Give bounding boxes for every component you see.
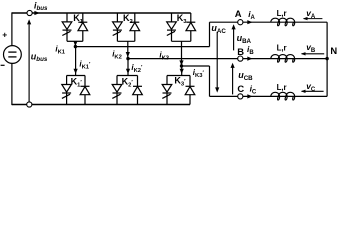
- inductor Lb (L,r): [271, 55, 295, 63]
- diode D4 of K1p (antiparallel): [80, 76, 90, 105]
- node: leg3 junction: [180, 64, 183, 67]
- wire+arrow i_K1p: phase A bus down to K1p: [75, 47, 77, 76]
- node: leg1 junction: [74, 45, 77, 48]
- wire: left vertical with DC source: [11, 12, 13, 45]
- wire: phase B line to right edge: [243, 58, 327, 60]
- arrow v_C: [302, 90, 324, 92]
- wire: phase C to terminal C: [210, 95, 238, 97]
- arrow v_B: [302, 53, 325, 55]
- svg-text:B: B: [237, 46, 244, 57]
- thyristor V1 of K1: [62, 13, 72, 41]
- arrow i_bus on top rail: [34, 11, 39, 15]
- arrow v_A (source voltage): [304, 18, 323, 20]
- thyristor V5 of K2p: [112, 76, 122, 105]
- wire: right vertical to node N: [326, 22, 328, 96]
- diode D3 of K3 (antiparallel): [186, 13, 196, 41]
- wire+arrow i_K2p: phase B down to K2p: [127, 59, 129, 76]
- terminal B: [238, 56, 243, 61]
- diode D2 of K2 (antiparallel): [130, 13, 140, 41]
- thyristor V4 of K1p: [62, 76, 72, 105]
- wire: phase A to terminal A: [210, 21, 238, 23]
- arrow i_B: [247, 57, 252, 61]
- wire: top DC bus rail: [12, 12, 27, 14]
- thyristor V3 of K3: [167, 13, 177, 41]
- thyristor V2 of K2: [113, 13, 123, 41]
- svg-text:C: C: [237, 83, 244, 94]
- terminal: top bus node (open circle): [27, 10, 32, 15]
- wire: K3p module top: [167, 75, 190, 77]
- wire+arrow i_K3p: phase C bus down to K3p: [181, 66, 183, 76]
- svg-text:L,r: L,r: [277, 43, 287, 52]
- arrow u_CB (phase C to B): [232, 67, 234, 94]
- wire: K1p module top: [67, 75, 85, 77]
- wire+arrow i_K3: K3 to phase C bus (crosses phase B): [181, 41, 183, 65]
- svg-text:A: A: [235, 8, 242, 19]
- wire: phase C vertical jog: [209, 66, 211, 96]
- wire: phase A line to right edge: [243, 21, 327, 23]
- wire: K2 module bottom: [117, 40, 134, 42]
- wire: K2p module top: [117, 75, 138, 77]
- diode D6 of K3p (antiparallel): [185, 76, 195, 105]
- arrow u_BA (phase B to A): [233, 29, 235, 51]
- label - of source: [1, 64, 5, 66]
- wire: phase C line to right edge: [243, 95, 327, 97]
- wire: K1 module bottom: [67, 40, 83, 42]
- terminal: bottom bus node (open circle): [27, 102, 32, 107]
- svg-text:L,r: L,r: [277, 83, 287, 92]
- voltage source U (DC): [4, 46, 22, 64]
- inductor La (L,r): [271, 18, 295, 26]
- terminal A: [238, 20, 243, 25]
- wire: phase A vertical jog: [209, 22, 211, 46]
- svg-text:+: +: [2, 30, 7, 40]
- svg-text:L,r: L,r: [277, 9, 287, 18]
- arrow i_A: [247, 20, 252, 24]
- diode D1 of K1 (antiparallel): [78, 13, 88, 41]
- node N junction dot: [325, 57, 328, 60]
- terminal C: [238, 94, 243, 99]
- inductor Lc (L,r): [271, 92, 295, 100]
- diode D5 of K2p (antiparallel): [133, 76, 143, 105]
- svg-text:N: N: [330, 45, 337, 56]
- wire: K3 module bottom: [172, 40, 191, 42]
- thyristor V6 of K3p: [162, 76, 172, 105]
- arrow u_bus (voltage across DC bus): [28, 24, 30, 101]
- arrow u_AC (phase A to C): [216, 32, 218, 88]
- arrow i_C: [247, 94, 252, 98]
- wire+arrow i_K1: K1 to phase A bus: [74, 41, 76, 46]
- wire: phase C bus from leg3 to jog: [182, 65, 210, 67]
- node: leg2 junction on phase B: [126, 57, 129, 60]
- wire: phase B from leg2 to terminal B: [128, 58, 238, 60]
- wire+arrow i_K2: K2 to phase B bus: [127, 41, 129, 57]
- wire: phase A bus from leg1 to jog: [75, 46, 209, 48]
- wire: bottom DC bus rail: [12, 104, 27, 106]
